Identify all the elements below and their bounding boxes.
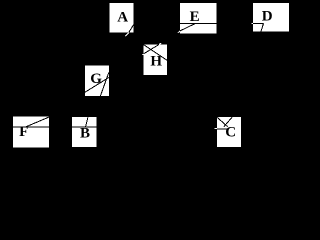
edge stub left of H	[142, 54, 143, 55]
edge E-D horizontal line across E	[180, 22, 217, 24]
edge line in H from top edge to left edge	[144, 45, 159, 54]
node C box	[217, 117, 241, 147]
svg-text:H: H	[150, 54, 162, 70]
edge line in C from top-left corner to letter	[217, 117, 227, 126]
edge E-H diagonal line in E	[180, 23, 196, 31]
edge nub above-right of H	[159, 43, 161, 44]
edge horizontal line across F	[13, 126, 49, 128]
node A box	[110, 3, 134, 33]
svg-text:G: G	[90, 71, 102, 87]
node H box	[144, 45, 167, 76]
edge diagonal line in F to top-right corner	[25, 117, 49, 127]
edge stub left of D	[251, 22, 253, 24]
svg-text:D: D	[262, 9, 273, 25]
svg-text:C: C	[225, 124, 236, 140]
edge stub below A	[125, 33, 128, 37]
node E box	[180, 3, 217, 34]
svg-text:B: B	[80, 126, 90, 142]
edge diagonal line in D	[261, 23, 264, 31]
edge steep line in B from top edge	[85, 117, 88, 127]
edge line in G from right edge to bottom edge	[100, 73, 108, 97]
edge line in A (to bottom-right corner)	[129, 25, 134, 33]
svg-text:F: F	[19, 124, 28, 140]
edge line in G from bottom-left corner to right edge	[85, 77, 109, 92]
node D box	[253, 3, 289, 32]
svg-text:E: E	[190, 9, 200, 25]
edge stub left of C	[215, 128, 217, 130]
edge horizontal line in D	[253, 22, 264, 24]
svg-text:A: A	[117, 10, 128, 26]
node B box	[72, 117, 97, 147]
node G box	[85, 66, 109, 97]
edge horizontal line in C from left edge to letter	[217, 128, 228, 130]
edge line in H from top-left corner to right edge	[144, 45, 167, 61]
node F box	[13, 117, 49, 148]
edge stub below-left of E	[178, 31, 180, 33]
edge steep line in C from top edge to letter	[224, 117, 232, 127]
edge horizontal line across B	[72, 126, 97, 128]
